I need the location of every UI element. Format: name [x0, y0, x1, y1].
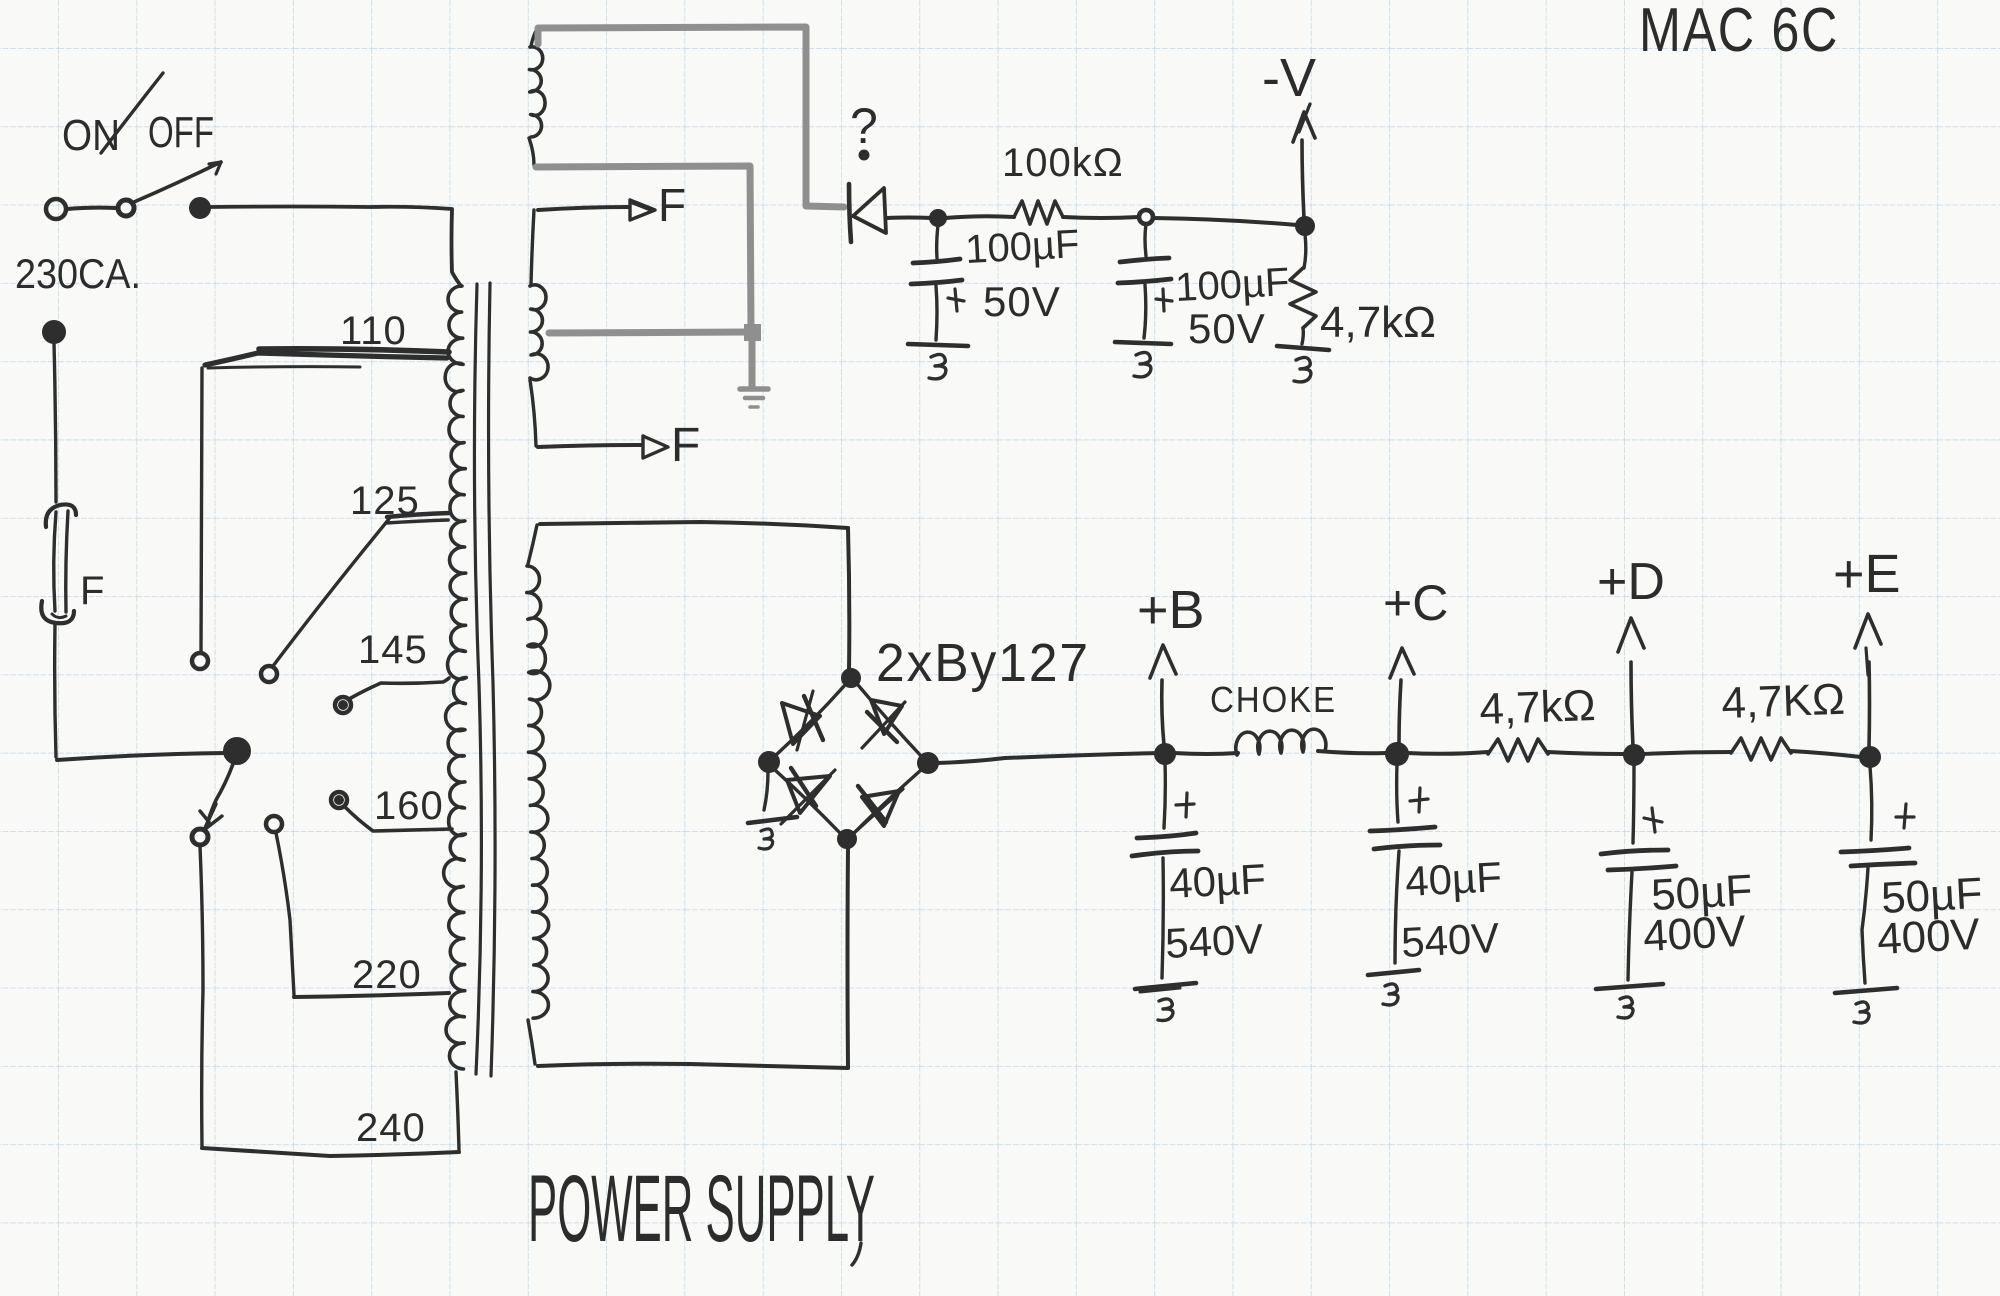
wire bridge to +B: [937, 753, 1158, 763]
wire: [945, 216, 1014, 218]
ground: [1115, 342, 1171, 377]
label 50V: [1188, 305, 1266, 352]
switch S1 pole: [118, 200, 134, 216]
wire bridge TR edge: [858, 685, 922, 757]
label F1: [658, 179, 686, 231]
label 100kΩ: [1002, 141, 1124, 185]
node input terminal: [44, 322, 64, 342]
selector arm with arrow: [200, 764, 233, 830]
ground: [1368, 970, 1419, 1005]
arrow -V: [1293, 104, 1315, 142]
svg-text:540V: 540V: [1400, 914, 1500, 966]
wire 125 tap: [273, 513, 450, 666]
wire: [1791, 751, 1861, 757]
node bridge right: [919, 754, 937, 772]
wire gray bias top: [538, 27, 844, 207]
title POWER SUPPLY: [528, 1156, 875, 1265]
svg-text:50V: 50V: [1188, 305, 1266, 352]
resistor R4 4.7k: [1731, 738, 1791, 760]
diode D3 (bridge TR): [862, 700, 905, 748]
label F (fuse): [80, 569, 104, 613]
wire to transformer primary: [210, 207, 452, 210]
wire 160 tap: [345, 807, 452, 831]
arrow +B: [1150, 645, 1176, 745]
label ON/OFF: [62, 73, 214, 160]
wire: [1174, 753, 1238, 754]
node +E: [1861, 748, 1879, 766]
capacitor C3 40uF: [1132, 793, 1198, 856]
transformer core: [474, 283, 495, 1076]
label 540V: [1164, 915, 1264, 967]
node bridge bottom: [839, 831, 855, 847]
diode D5 (bridge BR): [855, 786, 903, 832]
svg-text:240: 240: [356, 1106, 426, 1150]
svg-text:F: F: [80, 569, 104, 613]
svg-text:145: 145: [358, 628, 428, 672]
wire HT top lead: [528, 525, 537, 564]
label CHOKE: [1210, 679, 1337, 720]
svg-text:50V: 50V: [983, 278, 1061, 325]
wire: [1633, 764, 1634, 843]
node B: [1139, 210, 1153, 224]
arrow F2: [643, 436, 668, 458]
wire HT loop right upper: [848, 528, 849, 671]
ground: [1835, 988, 1897, 1023]
svg-text:400V: 400V: [1876, 910, 1982, 964]
wire bridge left to ground: [764, 771, 768, 810]
wire: [54, 343, 56, 502]
wire: [1397, 764, 1398, 822]
wire: [937, 225, 938, 258]
wire: [886, 216, 933, 221]
wire down left side: [200, 846, 203, 1146]
wire filament F1: [538, 207, 628, 210]
label 400V: [1876, 910, 1982, 964]
wire HT loop top: [540, 522, 848, 528]
secondary winding A (bias): [529, 47, 545, 137]
wire: [1407, 752, 1488, 754]
wire: [1643, 752, 1731, 754]
svg-text:400V: 400V: [1642, 907, 1748, 961]
svg-text:MAC 6C: MAC 6C: [1639, 0, 1839, 65]
svg-text:230CA.: 230CA.: [15, 250, 141, 297]
label 100uF: [1174, 260, 1290, 310]
svg-text:40µF: 40µF: [1168, 855, 1267, 907]
wire: [1548, 752, 1625, 754]
label 160: [374, 784, 444, 828]
wire winding B bottom lead: [530, 380, 536, 446]
label 145: [358, 628, 428, 672]
node C: [1297, 218, 1313, 234]
label 240: [356, 1106, 426, 1150]
label 4,7kΩ (R3): [1479, 681, 1597, 734]
secondary winding HT: [527, 566, 550, 1018]
svg-text:4,7kΩ: 4,7kΩ: [1320, 298, 1436, 347]
svg-text:40µF: 40µF: [1404, 853, 1503, 905]
title MAC 6C: [1639, 0, 1839, 65]
wire: [1870, 766, 1872, 840]
capacitor C2 100uF: [1118, 258, 1172, 311]
label -V: [1262, 48, 1316, 108]
svg-text:110: 110: [340, 309, 407, 353]
svg-text:125: 125: [350, 479, 420, 523]
wire gray winding A bottom to ground: [536, 166, 751, 329]
diode D4 (bridge BL): [781, 768, 835, 824]
arrow +D: [1618, 618, 1644, 746]
wire winding A bottom: [529, 138, 534, 165]
node +B: [1156, 745, 1174, 763]
switch S1 output terminal: [191, 199, 209, 217]
svg-text:100µF: 100µF: [1174, 260, 1290, 310]
wire: [1628, 872, 1632, 980]
fuse F1: [41, 504, 76, 623]
label F2: [671, 419, 700, 472]
label +E: [1833, 544, 1901, 604]
capacitor C5 50uF: [1601, 808, 1676, 870]
label 2xBy127: [876, 633, 1090, 693]
label 40uF: [1404, 853, 1503, 905]
label ?: [850, 98, 878, 159]
svg-text:220: 220: [352, 953, 422, 997]
terminal 160: [331, 792, 347, 808]
wire HT loop bottom: [538, 1064, 848, 1068]
label 50V: [983, 278, 1061, 325]
label 50uF: [1880, 869, 1984, 923]
wire bridge BR edge: [854, 770, 921, 833]
wire to selector common: [57, 753, 226, 760]
label 125: [350, 479, 420, 523]
label 50uF: [1650, 866, 1754, 920]
svg-text:4,7kΩ: 4,7kΩ: [1479, 681, 1597, 734]
secondary winding B (filament): [530, 285, 548, 380]
wire bridge TL edge: [776, 685, 845, 755]
svg-text:100kΩ: 100kΩ: [1002, 141, 1124, 185]
node A: [931, 211, 945, 225]
node bridge top: [843, 670, 859, 686]
wire 220 tap: [276, 833, 449, 997]
wire: [1318, 751, 1386, 753]
terminal 220: [266, 816, 282, 832]
label +D: [1597, 553, 1665, 611]
wire filament F2: [538, 445, 641, 447]
svg-text:2xBy127: 2xBy127: [876, 633, 1090, 693]
wire gray winding B tap: [549, 332, 748, 333]
wire 110 tap: [201, 349, 449, 653]
label 220: [352, 953, 422, 997]
capacitor C6 50uF: [1841, 804, 1915, 866]
label +C: [1383, 575, 1448, 631]
terminal 125: [261, 666, 277, 682]
wire: [1063, 217, 1139, 218]
diode D2 (bridge TL): [782, 691, 823, 750]
ground (bridge): [748, 817, 797, 849]
wire 240 tap bottom: [202, 1148, 459, 1156]
svg-text:4,7KΩ: 4,7KΩ: [1721, 675, 1846, 728]
terminal 110: [192, 653, 208, 669]
svg-text:+B: +B: [1137, 580, 1205, 640]
wire: [1395, 851, 1399, 963]
ground: [1135, 983, 1196, 1021]
wire winding B top lead: [531, 210, 534, 284]
wire: [1862, 868, 1868, 983]
label +B: [1137, 580, 1205, 640]
svg-text:160: 160: [374, 784, 444, 828]
svg-text:F: F: [658, 179, 686, 231]
capacitor C1 100uF: [911, 259, 964, 311]
node +D: [1625, 746, 1643, 764]
wire bridge BL edge: [775, 770, 840, 833]
svg-text:OFF: OFF: [148, 108, 214, 157]
wire: [1153, 218, 1297, 225]
terminal 145: [335, 697, 351, 713]
wire down to primary top: [452, 210, 462, 286]
switch S1 lever: [134, 162, 221, 202]
arrow +E: [1855, 614, 1881, 748]
svg-text:540V: 540V: [1164, 915, 1264, 967]
arrow +C: [1390, 648, 1414, 744]
ground: [908, 344, 968, 379]
svg-text:ON: ON: [62, 111, 120, 160]
node bridge left: [760, 753, 778, 771]
svg-text:+D: +D: [1597, 553, 1665, 611]
label 100uF: [964, 222, 1080, 272]
resistor R3 4.7k: [1488, 739, 1548, 761]
wire 145 tap: [349, 678, 449, 699]
wire: [1145, 224, 1146, 256]
label 110: [340, 309, 407, 353]
wire: [67, 208, 116, 209]
arrow F1: [630, 200, 655, 220]
wire: [55, 624, 56, 757]
svg-text:+C: +C: [1383, 575, 1448, 631]
label 400V: [1642, 907, 1748, 961]
capacitor C4 40uF: [1370, 788, 1440, 849]
ground (gray): [740, 389, 768, 407]
svg-text:?: ?: [850, 98, 878, 154]
svg-text:F: F: [671, 419, 700, 472]
wire: [936, 286, 937, 340]
diode D1 (bias): [849, 184, 886, 242]
svg-text:+E: +E: [1833, 544, 1901, 604]
ground: [1596, 984, 1663, 1018]
terminal selected (240): [192, 829, 208, 845]
wire: [1164, 762, 1165, 828]
label 4,7KΩ (R4): [1721, 675, 1846, 728]
resistor R1 100k: [1014, 201, 1063, 224]
wire HT bottom lead: [528, 1020, 535, 1064]
label 540V: [1400, 914, 1500, 966]
label 40uF: [1168, 855, 1267, 907]
wire: [1162, 858, 1163, 978]
transformer primary winding: [444, 286, 467, 1069]
svg-text:-V: -V: [1262, 48, 1316, 108]
wire -V up: [1302, 140, 1304, 218]
wire: [1144, 285, 1146, 338]
inductor L1 choke: [1236, 729, 1326, 755]
node selector common: [225, 739, 249, 763]
resistor R2 4.7k (vertical): [1290, 234, 1316, 344]
svg-text:CHOKE: CHOKE: [1210, 679, 1337, 720]
wire gray to ground: [749, 341, 756, 386]
ground: [1277, 346, 1329, 382]
node +C: [1387, 744, 1407, 764]
junction gray: [744, 324, 761, 341]
svg-text:POWER SUPPLY: POWER SUPPLY: [528, 1156, 875, 1262]
wire HT loop right lower: [846, 846, 851, 1067]
svg-text:100µF: 100µF: [964, 222, 1080, 272]
wire up to coil bottom: [456, 1072, 459, 1150]
label 230CA.: [15, 250, 141, 297]
wire winding A top: [531, 29, 537, 46]
switch S1 input terminal: [46, 199, 66, 219]
label 4,7kΩ: [1320, 298, 1436, 347]
